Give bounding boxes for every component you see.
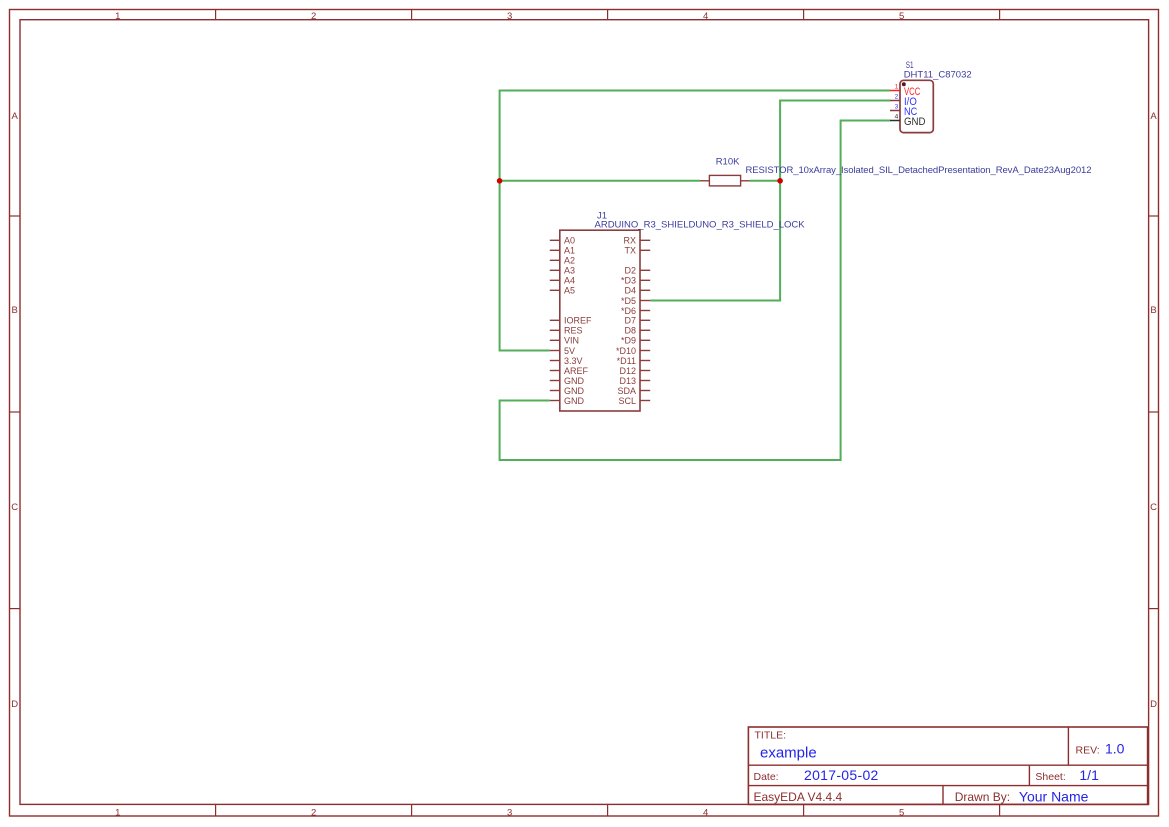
S1 pin 4 GND [890, 114, 926, 128]
J1 left pin GND [550, 386, 585, 396]
svg-text:1/1: 1/1 [1079, 767, 1099, 783]
column tick 5 top [999, 10, 1001, 20]
svg-text:B: B [1150, 305, 1156, 316]
J1 right pin D4 [624, 286, 650, 296]
title block DrawnBy divider [942, 786, 944, 805]
svg-text:REV:: REV: [1076, 745, 1100, 757]
row tick 2 left [10, 411, 21, 413]
J1 left pin A1 [550, 246, 575, 256]
svg-text:A0: A0 [564, 236, 575, 246]
svg-text:GND: GND [564, 376, 585, 386]
J1 right pin D2 [624, 266, 650, 276]
column tick 1 top [215, 10, 217, 20]
row tick 3 left [10, 608, 21, 610]
column tick 3 top [607, 10, 609, 20]
svg-text:A4: A4 [564, 276, 575, 286]
svg-text:5: 5 [899, 807, 904, 818]
resistor R10K left lead [700, 180, 710, 182]
junction dot right [777, 178, 783, 184]
J1 right pin *D9 [621, 336, 650, 346]
column tick 4 bottom [803, 804, 805, 816]
svg-text:4: 4 [703, 807, 708, 818]
svg-text:D12: D12 [619, 366, 636, 376]
column tick 5 bottom [999, 804, 1001, 816]
svg-text:SDA: SDA [617, 386, 636, 396]
S1 pin 1 VCC [890, 84, 920, 98]
wire net GND: DHT11 pin4 to J1 GND [500, 121, 891, 461]
svg-text:GND: GND [564, 396, 585, 406]
wire resistor right segment [750, 180, 780, 182]
J1 left pin IOREF [550, 316, 592, 326]
svg-text:A5: A5 [564, 286, 575, 296]
svg-text:3: 3 [507, 807, 512, 818]
sensor S1 DHT11 body [900, 80, 933, 132]
J1 right pin D7 [624, 316, 650, 326]
svg-text:C: C [1150, 502, 1157, 513]
J1 left pin RES [550, 326, 583, 336]
J1 right pin *D3 [621, 276, 650, 286]
svg-text:*D11: *D11 [617, 356, 636, 366]
J1 left pin A4 [550, 276, 575, 286]
svg-text:*D9: *D9 [621, 336, 636, 346]
svg-text:IOREF: IOREF [564, 316, 592, 326]
svg-text:C: C [11, 502, 18, 513]
svg-text:B: B [12, 305, 18, 316]
svg-text:example: example [760, 745, 817, 762]
svg-text:VIN: VIN [564, 336, 579, 346]
J1 right pin RX [623, 236, 650, 246]
J1 left pin A5 [550, 286, 575, 296]
svg-text:*D3: *D3 [621, 276, 636, 286]
row tick 3 right [1149, 608, 1159, 610]
svg-text:D8: D8 [624, 326, 636, 336]
title block row divider 2 [748, 785, 1147, 787]
junction dot left [497, 178, 503, 184]
J1 right pin D8 [624, 326, 650, 336]
svg-text:RES: RES [564, 326, 583, 336]
J1 right pin SCL [618, 396, 650, 406]
svg-text:EasyEDA V4.4.4: EasyEDA V4.4.4 [754, 790, 843, 804]
svg-text:D4: D4 [624, 286, 636, 296]
svg-text:GND: GND [564, 386, 585, 396]
svg-text:SCL: SCL [618, 396, 636, 406]
svg-text:4: 4 [895, 114, 899, 121]
svg-text:A: A [12, 111, 19, 122]
svg-text:D13: D13 [619, 376, 636, 386]
svg-text:4: 4 [703, 11, 708, 22]
svg-text:Sheet:: Sheet: [1035, 771, 1065, 783]
wire net VCC: DHT11 pin1 to J1 5V [500, 91, 891, 351]
J1 left pin 5V [550, 346, 575, 356]
J1 right pin *D5 [621, 296, 650, 306]
svg-text:3: 3 [895, 104, 899, 111]
J1 left pin A0 [550, 236, 575, 246]
svg-text:1: 1 [115, 807, 120, 818]
svg-text:TITLE:: TITLE: [755, 730, 787, 742]
svg-text:3.3V: 3.3V [564, 356, 583, 366]
svg-text:A2: A2 [564, 256, 575, 266]
svg-text:1.0: 1.0 [1105, 741, 1125, 757]
J1 right pin D12 [619, 366, 650, 376]
wire resistor left segment [500, 180, 700, 182]
svg-text:A: A [1150, 111, 1157, 122]
svg-text:2: 2 [311, 807, 316, 818]
column tick 1 bottom [215, 804, 217, 816]
S1 pin 2 I/O [890, 94, 917, 108]
svg-text:3: 3 [507, 11, 512, 22]
svg-text:Drawn By:: Drawn By: [955, 790, 1010, 804]
svg-text:*D5: *D5 [621, 296, 636, 306]
svg-text:GND: GND [904, 116, 926, 128]
resistor R10K right lead [741, 180, 750, 182]
svg-text:R10K: R10K [716, 156, 740, 167]
J1 left pin 3.3V [550, 356, 583, 366]
connector J1 body [560, 230, 640, 411]
row tick 1 right [1149, 215, 1159, 217]
row tick 2 right [1149, 411, 1159, 413]
J1 right pin *D11 [617, 356, 651, 366]
S1 pin1 orientation dot [902, 82, 906, 86]
column tick 3 bottom [607, 804, 609, 816]
svg-text:2: 2 [311, 11, 316, 22]
svg-text:TX: TX [624, 246, 636, 256]
svg-text:2: 2 [895, 94, 899, 101]
svg-text:D7: D7 [624, 316, 636, 326]
column tick 2 top [411, 10, 413, 20]
J1 left pin VIN [550, 336, 579, 346]
svg-text:ARDUINO_R3_SHIELDUNO_R3_SHIELD: ARDUINO_R3_SHIELDUNO_R3_SHIELD_LOCK [595, 220, 806, 231]
title block row divider 1 [748, 764, 1147, 766]
svg-text:A1: A1 [564, 246, 575, 256]
title block REV divider [1067, 727, 1069, 765]
J1 left pin GND [550, 376, 585, 386]
svg-text:1: 1 [895, 84, 899, 91]
svg-text:D: D [1150, 699, 1157, 710]
title block outline [748, 727, 1147, 804]
svg-text:2017-05-02: 2017-05-02 [804, 767, 879, 783]
J1 right pin TX [624, 246, 650, 256]
J1 right pin *D6 [621, 306, 650, 316]
svg-text:RX: RX [623, 236, 636, 246]
resistor R10K body [709, 175, 740, 186]
J1 right pin D13 [619, 376, 650, 386]
svg-text:*D6: *D6 [621, 306, 636, 316]
svg-text:DHT11_C87032: DHT11_C87032 [904, 70, 972, 81]
J1 left pin AREF [550, 366, 589, 376]
svg-text:5: 5 [899, 11, 904, 22]
S1 pin 3 NC [890, 104, 917, 118]
title block Sheet divider [1028, 765, 1030, 785]
column tick 2 bottom [411, 804, 413, 816]
svg-text:*D10: *D10 [616, 346, 636, 356]
svg-text:D: D [11, 699, 18, 710]
J1 left pin GND [550, 396, 585, 406]
J1 right pin *D10 [616, 346, 650, 356]
svg-text:RESISTOR_10xArray_Isolated_SIL: RESISTOR_10xArray_Isolated_SIL_DetachedP… [746, 165, 1092, 176]
wire net IO vertical: DHT11 pin2 to J1 D5 [650, 101, 890, 301]
J1 left pin A2 [550, 256, 575, 266]
J1 left pin A3 [550, 266, 575, 276]
svg-text:Date:: Date: [754, 771, 779, 783]
svg-text:AREF: AREF [564, 366, 589, 376]
svg-text:D2: D2 [624, 266, 636, 276]
svg-text:Your Name: Your Name [1019, 788, 1089, 804]
row tick 1 left [10, 215, 21, 217]
svg-text:A3: A3 [564, 266, 575, 276]
column tick 4 top [803, 10, 805, 20]
svg-text:5V: 5V [564, 346, 575, 356]
J1 right pin SDA [617, 386, 650, 396]
svg-text:1: 1 [115, 11, 120, 22]
